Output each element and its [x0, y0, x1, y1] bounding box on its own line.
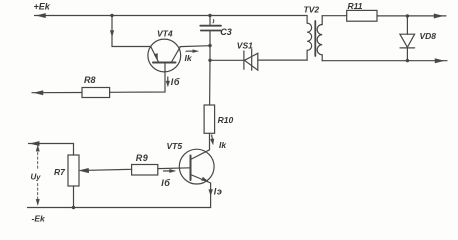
junction on rail at x=210	[208, 14, 211, 17]
junction output top	[406, 14, 409, 17]
wire node to VS1	[210, 59, 244, 61]
wire R7 bottom to rail	[73, 186, 75, 208]
diode VD8	[400, 16, 415, 61]
current arrow Ib (VT5 base)	[164, 169, 176, 172]
transistor VT5 (NPN)	[179, 149, 214, 184]
junction on rail at x=112	[110, 14, 113, 17]
resistor R7 (potentiometer)	[68, 155, 79, 186]
resistor R11	[347, 10, 377, 21]
svg-text:-Ek: -Ek	[32, 214, 47, 224]
junction R7 on bottom rail	[72, 206, 75, 209]
svg-text:VT4: VT4	[157, 29, 173, 39]
junction node collector VT4	[208, 44, 211, 47]
svg-text:VS1: VS1	[237, 40, 253, 50]
node -Ek rail (bottom wire)	[28, 207, 211, 209]
wire R9 to R7 wiper with arrow	[80, 168, 132, 172]
wire R9 to VT5 base	[158, 167, 191, 170]
svg-text:R8: R8	[84, 75, 96, 85]
capacitor C3	[200, 16, 221, 46]
svg-text:Iб: Iб	[161, 178, 170, 188]
node +Ek rail (top supply wire)	[35, 13, 308, 17]
dimension Uy	[36, 145, 39, 205]
wire secondary top to R11	[322, 15, 347, 17]
current arrow Ik (VT5 collector)	[210, 135, 213, 145]
wire node down to VS1 branch	[209, 46, 211, 61]
svg-text:Ik: Ik	[219, 140, 227, 150]
transformer TV2	[307, 16, 322, 61]
wire VS1 to transformer primary	[258, 59, 307, 61]
wire R8 to the left with arrow	[32, 91, 82, 95]
svg-text:R9: R9	[136, 153, 149, 163]
svg-text:Iб: Iб	[171, 77, 180, 87]
wire node down to R10	[209, 60, 211, 105]
junction node VS1 branch	[208, 59, 211, 62]
svg-text:VT5: VT5	[167, 141, 183, 151]
resistor R9	[132, 165, 158, 176]
svg-text:R11: R11	[348, 1, 363, 11]
secondary winding	[321, 16, 323, 25]
wire VT5 emitter to bottom rail	[210, 183, 212, 208]
wire R10 to VT5 collector	[209, 133, 211, 150]
svg-text:R7: R7	[54, 167, 66, 177]
resistor R10	[204, 105, 215, 133]
svg-text:+Ek: +Ek	[34, 2, 51, 12]
transistor VT4 (PNP, base bar horizontal at bottom)	[148, 39, 181, 72]
wire VT4 base down and left to R8	[110, 63, 165, 93]
svg-text:TV2: TV2	[304, 4, 320, 14]
wire secondary bottom to output with arrow	[322, 59, 447, 63]
svg-text:Ik: Ik	[185, 53, 193, 63]
dinistor VS1	[244, 49, 258, 70]
current arrow Ik (VT4 collector)	[186, 50, 199, 53]
current arrow Ib (VT4 base)	[166, 77, 170, 87]
wire from rail down to VT4 emitter	[110, 16, 151, 47]
current arrow Ie (VT5 emitter)	[209, 190, 213, 196]
junction output bottom	[406, 59, 409, 62]
svg-text:R10: R10	[218, 115, 234, 125]
wire R11 to output with arrow	[377, 14, 446, 18]
primary winding	[306, 16, 308, 24]
svg-text:Uy: Uy	[31, 173, 42, 182]
svg-text:VD8: VD8	[420, 31, 437, 41]
wire R7 top to input with arrow	[29, 141, 74, 155]
wire VT4 collector to node	[180, 45, 210, 48]
resistor R8	[82, 88, 110, 98]
svg-text:C3: C3	[220, 27, 232, 37]
svg-text:Iэ: Iэ	[214, 187, 222, 197]
core	[314, 21, 316, 56]
